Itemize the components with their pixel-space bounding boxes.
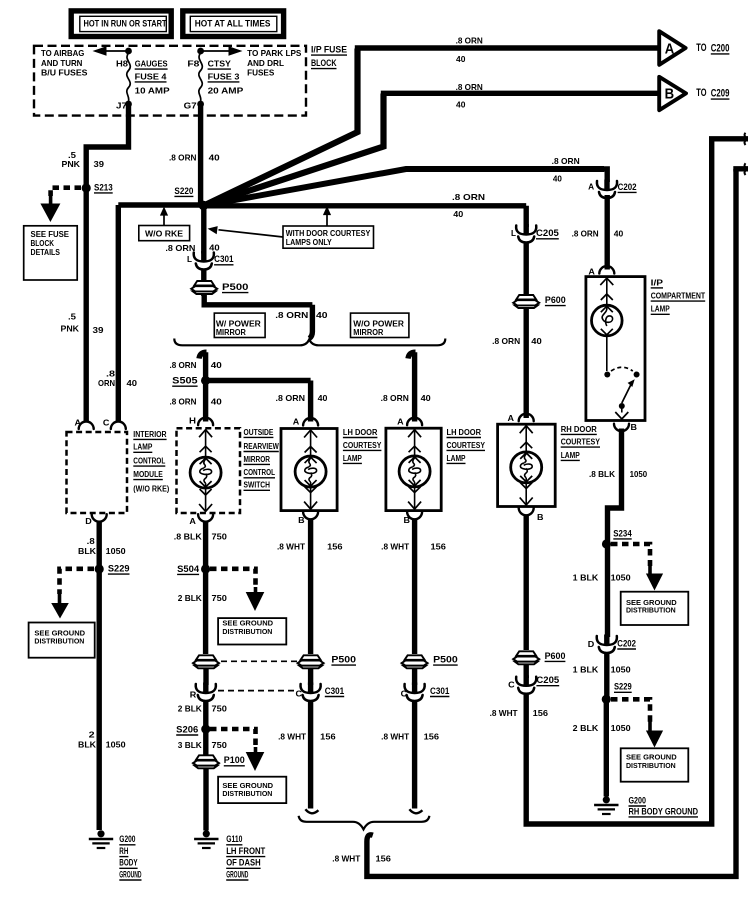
connector C301 pin C (lamp2)	[401, 683, 450, 702]
svg-text:.8 ORN: .8 ORN	[456, 83, 483, 92]
I/P lamp door switch	[604, 367, 639, 419]
svg-text:RH DOOR: RH DOOR	[561, 425, 597, 434]
label 1 BLK 1050 (lower)	[573, 665, 631, 674]
grommet P500 (courtesy feed)	[191, 281, 248, 294]
svg-text:LAMP: LAMP	[651, 305, 670, 314]
wire between C205 and P600	[524, 243, 529, 298]
svg-text:I/P: I/P	[651, 278, 663, 287]
svg-text:RH BODY GROUND: RH BODY GROUND	[629, 806, 699, 816]
connector C205 pin L	[511, 224, 559, 243]
wire 1 BLK 1050 from C202 to S229	[604, 653, 609, 699]
svg-text:L: L	[511, 229, 516, 238]
svg-text:PNK: PNK	[62, 160, 81, 169]
svg-text:.5: .5	[68, 151, 77, 160]
svg-text:S220: S220	[174, 186, 193, 196]
LH door courtesy lamp 1 (box)	[281, 417, 337, 510]
fuse GAUGES FUSE 4 10 AMP	[127, 53, 170, 101]
svg-text:.8 WHT: .8 WHT	[381, 732, 409, 741]
wire .8 ORN 40 from S505 to LH door courtesy lamp 1 pin A	[206, 381, 311, 422]
label .8 ORN 40 (above S505)	[170, 361, 223, 370]
svg-text:3 BLK: 3 BLK	[178, 741, 202, 750]
triangle connector A	[659, 31, 685, 65]
svg-text:C: C	[508, 681, 515, 690]
svg-text:LAMP: LAMP	[133, 443, 152, 452]
wire .8 WHT 156 from lamp2 pin B	[412, 519, 417, 655]
note box W/O POWER MIRROR	[351, 313, 409, 337]
svg-text:BLOCK: BLOCK	[311, 58, 337, 68]
grommet P600 (lower)	[513, 651, 565, 665]
wire 1 BLK 1050 from S234 to C202 pin D	[605, 544, 610, 637]
svg-text:A: A	[189, 517, 196, 526]
svg-text:MIRROR: MIRROR	[216, 328, 246, 337]
svg-text:L: L	[187, 255, 192, 264]
RH door courtesy lamp (box)	[498, 414, 556, 507]
wire .8 ORN 40 from S220 to C202 pin A	[207, 169, 607, 205]
connector C202 pin D	[588, 635, 636, 654]
ground G110 LH FRONT OF DASH GROUND	[194, 830, 266, 880]
svg-text:.8 ORN: .8 ORN	[169, 153, 197, 162]
svg-text:TO AIRBAG: TO AIRBAG	[41, 49, 84, 58]
wire 3 BLK 750 from S206 to P100	[203, 729, 208, 757]
label .8 WHT 156 (lamp2 lower)	[381, 732, 439, 741]
svg-text:A: A	[75, 419, 82, 428]
svg-text:S229: S229	[614, 682, 632, 692]
svg-text:F8: F8	[187, 60, 200, 69]
wire .8 WHT 156 from lamp1 pin B	[308, 519, 313, 655]
svg-text:(W/O RKE): (W/O RKE)	[133, 484, 169, 493]
label .8 ORN 40 (switch feed)	[170, 397, 223, 406]
dashed wire from S234 to ground distribution arrow	[611, 544, 663, 591]
svg-text:750: 750	[212, 533, 228, 542]
svg-text:S504: S504	[177, 564, 199, 574]
svg-text:1050: 1050	[106, 547, 126, 556]
svg-text:C202: C202	[618, 182, 637, 192]
note box SEE GROUND DISTRIBUTION (switch)	[218, 618, 286, 644]
wire .8 WHT 156 from RH lamp pin B to P600	[524, 515, 529, 651]
label OUTSIDE REARVIEW MIRROR CONTROL SWITCH	[244, 428, 280, 491]
wire .8 ORN 40 from P600 to RH lamp pin A	[524, 308, 529, 418]
I/P compartment lamp (box)	[586, 277, 645, 421]
note box W/O RKE with arrow	[139, 207, 190, 241]
note box SEE FUSE BLOCK DETAILS	[24, 226, 77, 280]
wire between P500 and C301 (switch wire)	[203, 668, 208, 685]
I/P lamp pin B	[614, 423, 637, 432]
svg-text:.5: .5	[68, 313, 77, 322]
wire .8 ORN 40 from C202 to I/P compartment lamp pin A	[605, 195, 610, 270]
svg-text:SEE FUSE: SEE FUSE	[31, 230, 70, 239]
svg-text:LAMP: LAMP	[447, 454, 466, 463]
svg-text:C: C	[103, 419, 110, 428]
svg-text:DETAILS: DETAILS	[31, 248, 61, 257]
svg-text:P500: P500	[331, 655, 356, 665]
splice brace (LH door lamp grounds)	[299, 816, 430, 830]
svg-text:C301: C301	[214, 254, 233, 264]
svg-text:S206: S206	[176, 724, 198, 734]
node H8	[116, 48, 132, 69]
svg-text:DISTRIBUTION: DISTRIBUTION	[626, 605, 676, 614]
svg-text:156: 156	[431, 543, 447, 552]
svg-text:DISTRIBUTION: DISTRIBUTION	[626, 761, 676, 770]
note box WITH DOOR COURTESY LAMPS ONLY with arrows	[208, 206, 374, 248]
svg-text:G110: G110	[226, 834, 242, 844]
svg-text:RH: RH	[119, 846, 128, 856]
svg-text:LAMP: LAMP	[343, 454, 362, 463]
label 39 (mid PNK wire)	[93, 326, 105, 335]
svg-text:SWITCH: SWITCH	[244, 481, 271, 490]
svg-text:CONTROL: CONTROL	[244, 468, 276, 477]
svg-text:OUTSIDE: OUTSIDE	[244, 428, 274, 437]
wire .8 ORN 40 from G7 to S220	[198, 104, 203, 205]
RH lamp pin B	[519, 508, 544, 522]
label I/P FUSE BLOCK	[311, 45, 347, 69]
dashed wire from S229 to ground distribution arrow (left)	[51, 569, 94, 619]
svg-text:40: 40	[453, 210, 463, 219]
svg-text:40: 40	[211, 397, 223, 406]
label I/P COMPARTMENT LAMP	[651, 278, 706, 314]
label INTERIOR LAMP CONTROL MODULE (W/O RKE)	[133, 430, 169, 494]
svg-text:10 AMP: 10 AMP	[135, 86, 171, 95]
svg-text:B: B	[298, 516, 305, 525]
svg-text:GROUND: GROUND	[226, 869, 248, 879]
label .5 PNK 39 (upper)	[62, 151, 105, 169]
svg-text:LH DOOR: LH DOOR	[343, 428, 378, 437]
wire .8 BLK 750 from switch pin A to S504	[203, 521, 208, 569]
svg-text:1050: 1050	[630, 470, 648, 479]
svg-text:.8 ORN: .8 ORN	[170, 397, 197, 406]
svg-text:A: A	[293, 417, 300, 426]
lamp2 pin B	[404, 512, 423, 525]
node G7	[184, 101, 204, 111]
svg-text:S213: S213	[94, 182, 113, 192]
svg-text:DISTRIBUTION: DISTRIBUTION	[222, 627, 272, 636]
label RH DOOR COURTESY LAMP	[561, 425, 601, 461]
label 1 BLK 1050 (upper)	[573, 573, 631, 582]
wire/arrow TO AIRBAG AND TURN B/U FUSES	[41, 46, 129, 77]
svg-text:DISTRIBUTION: DISTRIBUTION	[34, 637, 84, 646]
grommet P500 (lamp2 wire)	[402, 655, 458, 669]
svg-text:.8 ORN: .8 ORN	[456, 37, 483, 46]
label .8 ORN 40 (below S220)	[165, 243, 220, 253]
svg-text:40: 40	[318, 394, 328, 403]
wire .5 PNK 39 from J7 to S213 and interior lamp control module pin A	[86, 104, 128, 422]
label .8 ORN 40 (C205 wire)	[452, 193, 485, 219]
grommet P600 (upper)	[513, 295, 566, 308]
node F8	[187, 48, 204, 69]
label .8 BLK 1050 (I/P lamp ground)	[589, 470, 648, 479]
note box SEE GROUND DISTRIBUTION (S229 right)	[621, 748, 689, 781]
label LH DOOR COURTESY LAMP (1)	[343, 428, 382, 464]
svg-text:1050: 1050	[611, 724, 631, 733]
label .8 WHT 156 (runner)	[332, 854, 391, 863]
ground G200 RH BODY GROUND (right)	[594, 795, 698, 817]
svg-text:DISTRIBUTION: DISTRIBUTION	[222, 789, 272, 798]
svg-text:C205: C205	[536, 228, 559, 238]
svg-text:P600: P600	[545, 651, 566, 661]
wire exit to right edge (lower)	[736, 163, 748, 175]
svg-text:MIRROR: MIRROR	[244, 455, 271, 464]
svg-text:P500: P500	[222, 282, 249, 292]
svg-text:.8 WHT: .8 WHT	[332, 854, 360, 863]
dashed wire from S206 to ground distribution arrow	[210, 729, 264, 771]
svg-text:MODULE: MODULE	[133, 470, 163, 479]
lamp1 pin B	[298, 512, 318, 525]
splice S206	[176, 724, 210, 735]
svg-text:2 BLK: 2 BLK	[178, 704, 202, 713]
svg-text:156: 156	[424, 732, 440, 741]
svg-text:TO PARK LPS: TO PARK LPS	[247, 49, 302, 58]
svg-text:H8: H8	[116, 60, 129, 69]
svg-text:G7: G7	[184, 102, 198, 111]
svg-text:LAMPS ONLY: LAMPS ONLY	[286, 238, 333, 247]
wire .8 ORN 40 from S505 to mirror switch pin H	[203, 381, 208, 422]
svg-text:CONTROL: CONTROL	[133, 457, 165, 466]
svg-text:40: 40	[316, 311, 328, 320]
svg-text:40: 40	[209, 243, 220, 252]
label LH DOOR COURTESY LAMP (2)	[447, 428, 486, 464]
svg-text:LH DOOR: LH DOOR	[447, 428, 482, 437]
wire 2 BLK 1050 from S229 to G200	[96, 569, 101, 830]
svg-text:BLK: BLK	[78, 547, 96, 556]
svg-text:2 BLK: 2 BLK	[178, 594, 202, 603]
svg-text:C200: C200	[711, 42, 730, 54]
label 2 BLK 750 (upper)	[178, 594, 228, 603]
label .5 PNK 39 (lower)	[61, 313, 80, 334]
svg-text:G200: G200	[629, 795, 647, 805]
svg-text:.8 WHT: .8 WHT	[277, 543, 305, 552]
wire 2 BLK 750 from C301 to S206	[203, 701, 208, 729]
svg-text:40: 40	[614, 229, 624, 238]
svg-text:40: 40	[531, 337, 542, 346]
wire between C301 and P500	[201, 270, 206, 297]
svg-text:2: 2	[89, 730, 96, 739]
label 3 BLK 750	[178, 741, 228, 750]
svg-text:D: D	[85, 517, 92, 526]
wire/arrow TO PARK LPS AND DRL FUSES	[201, 46, 302, 77]
dashed wire from S213 to fuse-block-details arrow	[40, 188, 81, 222]
wire .8 ORN 40 from S220 to connector A (C200)	[207, 48, 660, 204]
node J7	[116, 101, 132, 111]
wire from P100 to G110	[203, 768, 208, 831]
svg-text:HOT AT ALL TIMES: HOT AT ALL TIMES	[195, 19, 271, 29]
svg-text:COURTESY: COURTESY	[561, 438, 601, 447]
svg-text:.8 ORN: .8 ORN	[572, 229, 599, 238]
svg-text:TO: TO	[696, 42, 706, 54]
label 2 BLK 1050 (G200 wire)	[78, 730, 126, 749]
label .8 ORN 40 (I/P lamp feed)	[572, 229, 624, 238]
svg-text:FUSE 4: FUSE 4	[135, 72, 167, 81]
svg-text:S234: S234	[613, 528, 631, 538]
svg-text:40: 40	[553, 174, 562, 183]
harness split brace	[174, 339, 445, 346]
svg-text:COMPARTMENT: COMPARTMENT	[651, 292, 706, 301]
svg-text:AND TURN: AND TURN	[41, 59, 82, 68]
wire .8 WHT 156 from C205 to right edge (upper runner)	[526, 139, 712, 824]
note box SEE GROUND DISTRIBUTION (left)	[29, 623, 95, 658]
svg-text:.8 ORN: .8 ORN	[275, 311, 308, 320]
connector C301 pin L	[187, 251, 234, 270]
wire .8 ORN 40 below S220	[201, 206, 206, 254]
connector C301 pin R	[190, 683, 296, 702]
wire .8 ORN 40 from P500 to harness split	[204, 294, 312, 339]
connector C205 pin C	[508, 675, 559, 694]
wire .8 ORN 40 brace to S505	[199, 352, 207, 380]
interior module pin D	[85, 514, 106, 526]
svg-text:B: B	[665, 86, 675, 103]
note box SEE GROUND DISTRIBUTION (S206)	[218, 777, 286, 803]
svg-text:P100: P100	[224, 755, 245, 765]
svg-text:PNK: PNK	[61, 325, 80, 334]
svg-text:B: B	[631, 423, 638, 432]
svg-text:A: A	[588, 183, 594, 192]
svg-text:40: 40	[456, 100, 466, 109]
note box W/ POWER MIRROR	[214, 313, 265, 337]
svg-text:40: 40	[127, 379, 138, 388]
I/P fuse block (dashed)	[34, 46, 306, 116]
dashed wire from S229 to ground distribution arrow (right)	[611, 699, 663, 747]
svg-text:H: H	[189, 417, 196, 426]
svg-text:REARVIEW: REARVIEW	[244, 442, 280, 451]
splice S220	[174, 186, 208, 210]
svg-text:C301: C301	[430, 686, 449, 696]
I/P compartment lamp pin A	[588, 266, 614, 276]
interior lamp control module (dashed box)	[67, 419, 128, 514]
svg-text:156: 156	[376, 854, 392, 863]
grommet P500 (lamp1 wire)	[298, 655, 357, 669]
svg-text:C202: C202	[617, 638, 636, 648]
svg-text:.8 BLK: .8 BLK	[174, 533, 202, 542]
svg-text:20 AMP: 20 AMP	[208, 86, 244, 95]
connector box HOT AT ALL TIMES	[183, 11, 284, 37]
svg-text:S505: S505	[172, 376, 198, 386]
svg-text:W/O RKE: W/O RKE	[145, 230, 183, 239]
svg-text:C205: C205	[536, 675, 559, 685]
svg-text:2 BLK: 2 BLK	[573, 724, 599, 733]
svg-text:750: 750	[212, 704, 228, 713]
label .8 ORN 40 (at split)	[275, 311, 328, 320]
svg-text:HOT IN RUN OR START: HOT IN RUN OR START	[84, 19, 167, 29]
label 2 BLK 750 (lower)	[178, 704, 228, 713]
connector box HOT IN RUN OR START	[71, 11, 171, 37]
svg-text:LH FRONT: LH FRONT	[226, 846, 266, 856]
splice S505	[172, 376, 210, 387]
svg-text:.8 WHT: .8 WHT	[381, 543, 409, 552]
svg-text:B: B	[537, 513, 544, 522]
svg-text:40: 40	[209, 153, 221, 162]
svg-text:156: 156	[320, 732, 336, 741]
splice S504	[177, 564, 210, 575]
svg-text:.8 BLK: .8 BLK	[589, 470, 615, 479]
wire .8 ORN 40 from S220 to connector B (C209)	[207, 93, 660, 204]
svg-text:A: A	[588, 268, 595, 277]
svg-text:750: 750	[212, 741, 228, 750]
dashed wire from S504 to ground distribution arrow	[210, 569, 264, 611]
connector C202 pin A	[588, 180, 636, 199]
svg-text:A: A	[397, 417, 404, 426]
svg-text:LAMP: LAMP	[561, 451, 580, 460]
I/P lamp bulb	[592, 278, 623, 371]
svg-text:.8 WHT: .8 WHT	[490, 709, 518, 718]
mirror switch pin A	[189, 514, 213, 526]
svg-text:.8 WHT: .8 WHT	[278, 732, 306, 741]
svg-text:40: 40	[211, 361, 223, 370]
svg-text:156: 156	[327, 543, 343, 552]
label .8 ORN 40 (lamp1 feed)	[276, 394, 328, 403]
wire exit to right edge (upper)	[712, 133, 748, 145]
svg-text:GAUGES: GAUGES	[135, 60, 168, 69]
splice S229 (left)	[95, 564, 130, 575]
ground G200 RH BODY GROUND (left)	[89, 830, 142, 880]
svg-text:ORN: ORN	[98, 379, 115, 388]
svg-text:1 BLK: 1 BLK	[573, 665, 599, 674]
svg-text:.8 ORN: .8 ORN	[452, 193, 485, 202]
svg-text:BODY: BODY	[119, 858, 137, 868]
wire .8 ORN 40 from S220 to C205 pin L	[204, 206, 527, 227]
svg-text:FUSE 3: FUSE 3	[208, 72, 240, 81]
svg-text:WITH DOOR COURTESY: WITH DOOR COURTESY	[286, 229, 371, 238]
svg-text:.8: .8	[106, 370, 116, 379]
svg-text:A: A	[508, 414, 515, 423]
label .8 ORN 40 (RH lamp feed)	[492, 337, 542, 346]
svg-text:C209: C209	[711, 88, 730, 100]
svg-text:.8 ORN: .8 ORN	[170, 361, 197, 370]
label .8 ORN 40 (B wire)	[456, 83, 483, 110]
svg-text:COURTESY: COURTESY	[447, 441, 486, 450]
svg-text:40: 40	[421, 394, 432, 403]
svg-text:COURTESY: COURTESY	[343, 441, 382, 450]
note box SEE GROUND DISTRIBUTION (S234)	[621, 592, 689, 625]
LH door courtesy lamp 2 (box)	[386, 417, 441, 510]
svg-text:CTSY: CTSY	[208, 60, 232, 69]
label .8 ORN 40 (A wire)	[456, 37, 483, 64]
label .8 BLK 1050 (pin D wire)	[78, 537, 126, 556]
svg-text:R: R	[190, 690, 197, 699]
svg-text:.8 ORN: .8 ORN	[165, 244, 195, 253]
svg-text:AND DRL: AND DRL	[247, 59, 284, 68]
splice S229 (right)	[602, 682, 632, 704]
wire .8 ORN from S220 to interior module pin C	[118, 205, 203, 422]
svg-text:.8 ORN: .8 ORN	[381, 394, 409, 403]
svg-text:.8 ORN: .8 ORN	[552, 157, 580, 166]
grommet P100	[193, 755, 245, 768]
svg-text:INTERIOR: INTERIOR	[133, 430, 167, 439]
wire .8 ORN 40 brace to LH door courtesy lamp 2 pin A	[408, 352, 416, 421]
label .8 WHT 156 (lamp2 upper)	[381, 543, 446, 552]
label TO C209	[696, 87, 729, 99]
svg-text:.8 ORN: .8 ORN	[492, 337, 520, 346]
svg-text:I/P FUSE: I/P FUSE	[311, 45, 347, 55]
svg-text:.8 ORN: .8 ORN	[276, 394, 306, 403]
wire 2 BLK 750 from S504 to P500	[203, 569, 208, 654]
label .8 ORN 40 (C202 wire)	[552, 157, 580, 184]
svg-text:A: A	[665, 40, 675, 57]
splice S213	[82, 182, 113, 193]
splice S220 junction dot	[199, 201, 208, 210]
svg-text:750: 750	[212, 594, 228, 603]
label .8 WHT 156 (lamp1 upper)	[277, 543, 343, 552]
wire between P600 and C205 (lower)	[524, 664, 529, 678]
svg-text:1050: 1050	[611, 665, 631, 674]
wire between P500 and C301 (lamp2)	[412, 668, 417, 685]
triangle connector B	[659, 77, 686, 110]
svg-text:C301: C301	[325, 686, 344, 696]
wire .8 WHT 156 from C301 to splice brace (lamp2)	[409, 701, 422, 813]
label .8 WHT 156 (RH lower)	[490, 709, 549, 718]
svg-text:P600: P600	[545, 295, 566, 305]
wire 2 BLK 1050 from S229 to G200	[604, 699, 609, 796]
svg-text:39: 39	[93, 326, 105, 335]
svg-text:40: 40	[456, 55, 466, 64]
outside rearview mirror control switch (dashed box)	[177, 417, 241, 513]
